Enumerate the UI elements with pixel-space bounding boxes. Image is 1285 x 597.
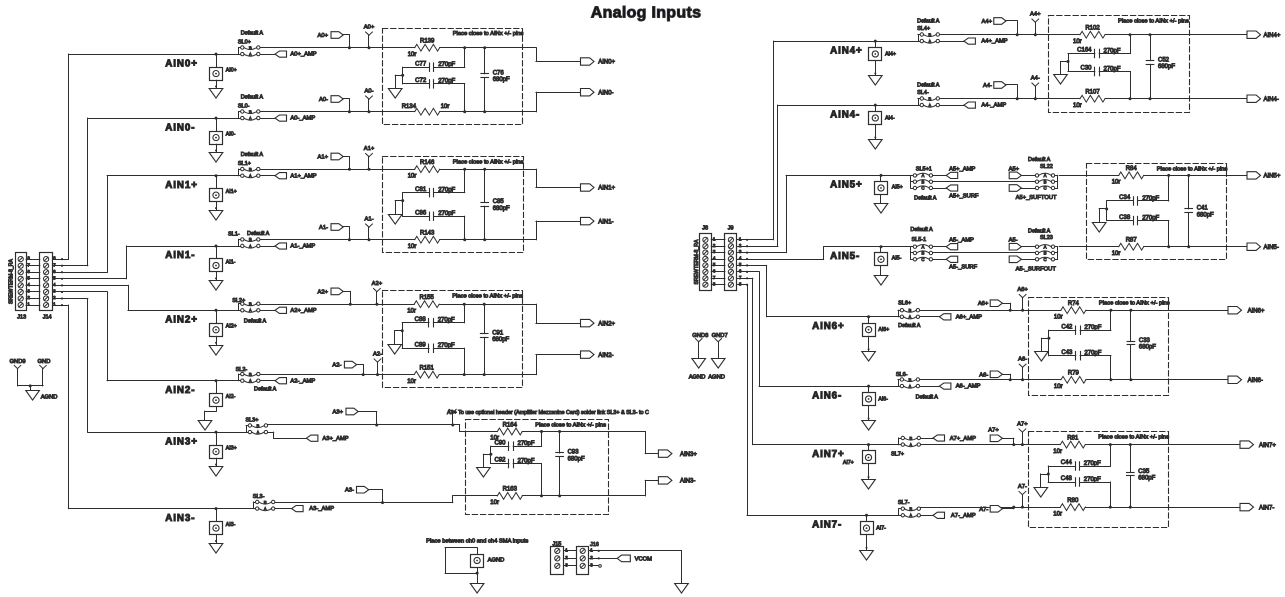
label AIN0- (165, 122, 195, 133)
svg-text:270pF: 270pF (438, 318, 455, 324)
capacitor C85 680pF (481, 168, 510, 242)
svg-text:270pF: 270pF (438, 211, 455, 217)
svg-text:270pF: 270pF (1104, 48, 1121, 54)
svg-text:J8: J8 (702, 226, 708, 232)
ground below AI1- (209, 272, 223, 290)
labels for solder link SL5-1 (910, 227, 933, 243)
svg-text:C88: C88 (415, 317, 427, 323)
wire AIN6- (759, 386, 898, 388)
svg-text:A: A (249, 308, 252, 313)
testpoint AI4- (869, 104, 895, 125)
ground AGND (GND9/GND) (18, 384, 58, 400)
svg-text:AI4+: AI4+ (885, 51, 896, 57)
svg-text:R139: R139 (420, 39, 435, 45)
wire AIN1+ through filter (383, 169, 524, 171)
wire AIN2+ through filter (382, 304, 522, 306)
svg-text:J9: J9 (728, 226, 734, 232)
resistor R151 10r (407, 365, 439, 384)
wire AIN5- through filter (1087, 246, 1227, 248)
svg-text:A1-: A1- (364, 217, 373, 223)
solder link SL7- (899, 507, 921, 519)
svg-text:B: B (908, 308, 911, 313)
resistor R107 10r (1073, 90, 1105, 109)
output flag AIN0- (523, 89, 614, 112)
net flag A5+_SURF (933, 185, 979, 200)
capacitor C93 680pF (556, 430, 585, 497)
wire J9 pin 8 to AIN7- (746, 285, 748, 516)
net flag A1+_AMP (260, 173, 317, 180)
svg-text:A2+: A2+ (318, 289, 329, 295)
svg-text:AI0+: AI0+ (226, 67, 237, 73)
svg-text:AI3+: AI3+ (226, 445, 237, 451)
svg-text:R79: R79 (1068, 371, 1080, 377)
output flag AIN5- (1227, 243, 1279, 251)
testpoint GND (40, 365, 47, 386)
wire AIN3+ to filter (268, 424, 460, 426)
wire A5+_SURF link row B (933, 181, 1036, 183)
capacitor C43 270pF (1049, 350, 1113, 381)
wire A5-_SURF link row B (933, 252, 1036, 254)
svg-text:A0+_AMP: A0+_AMP (290, 52, 316, 58)
capacitor C41 680pF (1185, 174, 1214, 248)
resistor R146 10r (408, 160, 440, 179)
svg-text:AIN5-: AIN5- (830, 251, 860, 262)
labels for solder link SL22 (1028, 157, 1053, 170)
testpoint AI5+ (875, 174, 903, 195)
wire AIN4- to filter (940, 98, 1049, 100)
net flag A4+_AMP (940, 38, 1008, 45)
note 'Place close to AINx +/- pins' (AIN4) (1118, 19, 1189, 25)
output flag AIN7- (1169, 503, 1274, 511)
svg-text:B: B (264, 500, 267, 505)
ground below AI3- (209, 535, 223, 553)
testpoint A4+ (1030, 12, 1041, 37)
svg-text:B: B (921, 251, 924, 256)
wire AIN4+ to filter (940, 34, 1049, 36)
label AIN1+ (165, 180, 198, 191)
svg-text:AGND: AGND (488, 558, 505, 564)
capacitor C30 270pF (1068, 66, 1132, 101)
solder link SL7+ (899, 436, 921, 448)
svg-text:AIN1-: AIN1- (598, 219, 613, 225)
svg-text:SL7-: SL7- (898, 500, 910, 506)
wire J14 pin 1 to AIN3- (62, 305, 69, 509)
svg-text:R87: R87 (1126, 238, 1138, 244)
net flag A1+ (318, 153, 351, 171)
output flag AIN3+ (608, 432, 697, 458)
svg-text:R163: R163 (503, 487, 518, 493)
svg-text:10r: 10r (1073, 39, 1082, 45)
svg-text:270pF: 270pF (438, 62, 455, 68)
label AIN7- (812, 520, 842, 531)
ground of AIN6 filter caps (1035, 330, 1051, 361)
svg-text:680pF: 680pF (568, 457, 585, 463)
svg-text:C41: C41 (1197, 206, 1209, 212)
solder link SL0+ (239, 45, 260, 57)
svg-text:270pF: 270pF (1104, 66, 1121, 72)
testpoint A1- (364, 217, 373, 242)
svg-text:R81: R81 (1067, 435, 1079, 441)
output flag AIN3- (608, 477, 695, 496)
labels for solder link SL3- (253, 494, 265, 500)
svg-text:A7+: A7+ (1017, 421, 1028, 427)
svg-text:AIN5+: AIN5+ (1264, 174, 1281, 180)
output flag AIN6- (1169, 376, 1263, 384)
svg-text:GND: GND (38, 359, 51, 365)
svg-text:SL4+: SL4+ (917, 26, 930, 32)
svg-text:C: C (921, 257, 924, 262)
capacitor C34 270pF (1107, 174, 1171, 205)
net flag A0-_AMP (260, 115, 315, 122)
svg-text:R143: R143 (420, 231, 435, 237)
net flag A4+ (982, 18, 1019, 37)
svg-text:A0+: A0+ (364, 25, 375, 31)
svg-text:C42: C42 (1061, 324, 1073, 330)
capacitor C33 680pF (1127, 309, 1156, 382)
ground of AIN1 filter caps (388, 193, 404, 225)
svg-text:AIN2+: AIN2+ (165, 315, 198, 326)
svg-text:680pF: 680pF (1139, 345, 1156, 351)
solder link SL2+ (239, 302, 260, 314)
net flag A2-_AMP (260, 378, 315, 385)
note 'Place between ch0 and ch4 SMA inputs' (426, 539, 528, 545)
svg-text:A0-: A0- (319, 97, 328, 103)
wire J9 pin 6 to AIN6- (747, 272, 759, 387)
stub J16 pin 3 (589, 565, 601, 568)
svg-text:AI7+: AI7+ (843, 460, 854, 466)
svg-text:J14: J14 (43, 314, 52, 320)
svg-text:B: B (909, 436, 912, 441)
svg-text:AI6+: AI6+ (878, 327, 889, 333)
connector J9 (SREWTERM-8_RA) (725, 234, 742, 291)
svg-text:A7-: A7- (1018, 484, 1027, 490)
output flag AIN4+ (1189, 31, 1281, 39)
svg-text:A: A (908, 384, 911, 389)
svg-text:AIN3+: AIN3+ (165, 436, 198, 447)
svg-text:A: A (256, 430, 259, 435)
testpoint GND8 with AGND ground (689, 339, 706, 381)
testpoint AI7+ (843, 443, 876, 466)
svg-text:A0-: A0- (364, 89, 373, 95)
svg-text:AI1-: AI1- (226, 259, 236, 265)
solder link SL3- (253, 500, 275, 512)
svg-text:270pF: 270pF (1084, 325, 1101, 331)
output flag AIN1- (524, 217, 614, 239)
ground below AI5- (874, 266, 888, 285)
svg-text:Place close to AINx +/- pins: Place close to AINx +/- pins (453, 159, 524, 165)
svg-text:C93: C93 (568, 450, 580, 456)
svg-text:Place close to AINx +/- pins: Place close to AINx +/- pins (452, 294, 523, 300)
svg-text:A: A (928, 39, 931, 44)
capacitor C72 270pF (403, 78, 467, 113)
svg-text:AI5+: AI5+ (892, 184, 903, 190)
svg-text:SL6+: SL6+ (898, 301, 911, 307)
net flag A1- (319, 224, 351, 242)
svg-text:Default A: Default A (910, 227, 933, 233)
svg-text:AGND: AGND (689, 375, 706, 381)
solder link SL4+ (918, 32, 940, 44)
wire AIN1- through filter (383, 239, 524, 241)
svg-text:C81: C81 (415, 187, 427, 193)
svg-text:Analog Inputs: Analog Inputs (591, 5, 702, 22)
svg-text:A: A (909, 513, 912, 518)
svg-text:J15: J15 (553, 542, 562, 548)
svg-text:GND7: GND7 (712, 333, 728, 339)
label J8 (702, 226, 708, 232)
labels for solder link SL6- (896, 372, 938, 400)
svg-text:270pF: 270pF (438, 187, 455, 193)
net flag A4-_AMP (940, 102, 1007, 109)
capacitor C38 270pF (1107, 215, 1171, 248)
solder link SL23 (1035, 244, 1057, 262)
svg-text:AIN4-: AIN4- (830, 109, 860, 120)
svg-text:A7-: A7- (979, 507, 988, 513)
label AIN6- (812, 390, 842, 401)
capacitor C91 680pF (480, 303, 509, 376)
svg-text:A1-: A1- (319, 225, 328, 231)
output flag AIN2+ (522, 304, 615, 327)
svg-text:A: A (249, 116, 252, 121)
svg-text:B: B (1044, 251, 1047, 256)
wire AIN6- to filter (920, 379, 1029, 381)
solder link SL1- (239, 237, 260, 249)
svg-text:C86: C86 (415, 210, 427, 216)
svg-text:VCOM: VCOM (635, 557, 653, 563)
wire AIN4- through filter (1048, 98, 1189, 100)
testpoint A7- (1018, 484, 1027, 509)
svg-text:10r: 10r (407, 379, 416, 385)
svg-text:SL23: SL23 (1040, 235, 1053, 241)
wire J14 pin 4 to AIN2+ (62, 285, 129, 310)
svg-text:Default A: Default A (244, 319, 267, 325)
svg-text:R80: R80 (1067, 498, 1079, 504)
note 'Place close to AINx +/- pins' (AIN1) (453, 159, 524, 165)
svg-text:AIN0+: AIN0+ (165, 58, 198, 69)
svg-text:680pF: 680pF (1158, 64, 1175, 70)
svg-text:B: B (249, 167, 252, 172)
wire AIN1+ (107, 175, 238, 177)
net flag A5- (1009, 238, 1036, 250)
svg-text:AIN1+: AIN1+ (165, 180, 198, 191)
svg-text:A5-_SURFOUT: A5-_SURFOUT (1016, 266, 1057, 272)
net flag A7+_AMP (921, 435, 977, 442)
testpoint A7+ (1017, 421, 1028, 446)
wire AIN3+ through filter (465, 431, 608, 433)
resistor R143 10r (408, 231, 440, 250)
net flag A3- (345, 486, 384, 504)
svg-text:GND8: GND8 (692, 333, 708, 339)
svg-text:A3-_AMP: A3-_AMP (309, 506, 334, 512)
testpoint AI0- (210, 117, 236, 145)
capacitor C88 270pF (402, 303, 466, 327)
wire AIN3+ (88, 432, 246, 434)
svg-text:A4-_AMP: A4-_AMP (981, 103, 1006, 109)
wire AIN1- (126, 246, 238, 248)
ground below AI2- (198, 407, 216, 430)
svg-text:A5-_AMP: A5-_AMP (949, 238, 974, 244)
resistor R155 10r (407, 295, 439, 314)
svg-text:C: C (1043, 186, 1046, 191)
testpoint AI1- (210, 245, 236, 272)
wire AIN6+ (767, 316, 899, 318)
svg-text:A5+: A5+ (1009, 166, 1020, 172)
svg-text:B: B (249, 109, 252, 114)
wire AIN0+ (68, 54, 238, 56)
capacitor C52 680pF (1146, 33, 1175, 100)
svg-text:A: A (921, 244, 924, 249)
testpoint AI5- (875, 245, 902, 265)
svg-text:A6+: A6+ (978, 301, 989, 307)
svg-text:R151: R151 (420, 365, 435, 371)
svg-text:Place close to AINx +/- pins: Place close to AINx +/- pins (1118, 19, 1189, 25)
wire AIN7+ (753, 444, 899, 446)
svg-text:Place close to AINx +/- pins: Place close to AINx +/- pins (1098, 435, 1169, 441)
wire AIN5+ to filter (1059, 175, 1086, 177)
labels GND8 and GND7 (692, 333, 728, 339)
testpoint AI3+ (210, 431, 237, 459)
label J16 (590, 542, 599, 548)
label AIN5- (830, 251, 860, 262)
svg-text:10r: 10r (408, 173, 417, 179)
output flag AIN5+ (1227, 172, 1281, 180)
svg-text:AIN5+: AIN5+ (830, 180, 863, 191)
svg-text:AIN6-: AIN6- (812, 390, 842, 401)
wires J13 pins to J14 pins (26, 260, 40, 306)
ground below AI4- (869, 125, 883, 150)
wire AIN5- (824, 246, 911, 248)
svg-text:Default A: Default A (241, 152, 264, 158)
svg-text:AIN1-: AIN1- (165, 250, 195, 261)
svg-text:Default A: Default A (916, 395, 939, 401)
svg-text:B: B (249, 302, 252, 307)
labels for solder link SL2+ (232, 298, 266, 325)
svg-text:A: A (908, 315, 911, 320)
svg-text:AI1+: AI1+ (226, 189, 237, 195)
svg-text:SREWTERM-8_RA: SREWTERM-8_RA (8, 258, 14, 304)
wire AIN0+ through filter (383, 47, 523, 49)
svg-text:10r: 10r (407, 308, 416, 314)
ground below AI7+ (862, 464, 876, 489)
wire AIN4+ through filter (1048, 34, 1189, 36)
svg-text:C35: C35 (1138, 469, 1150, 475)
svg-text:10r: 10r (408, 244, 417, 250)
svg-text:AI3-: AI3- (226, 522, 236, 528)
net flag A5-_AMP (933, 238, 974, 250)
svg-text:10r: 10r (1054, 384, 1063, 390)
wire J9 pin 5 to AIN6+ (747, 265, 767, 316)
ground of AIN0 filter caps (388, 67, 404, 98)
svg-text:A1+_AMP: A1+_AMP (290, 173, 316, 179)
svg-text:C43: C43 (1061, 350, 1073, 356)
dashed keepout box for AIN7 RC filters (1029, 432, 1169, 528)
wire AIN4- (778, 105, 918, 107)
wire J14 pin 7 to AIN0- (62, 118, 88, 266)
svg-text:Place close to AINx +/- pins: Place close to AINx +/- pins (453, 31, 524, 37)
wire AIN2- to filter (260, 374, 382, 376)
svg-text:Default A: Default A (1028, 157, 1051, 163)
wire AIN0+ to filter (260, 47, 383, 49)
svg-text:C: C (1043, 257, 1046, 262)
ground below AI0- (209, 144, 223, 162)
wire AIN0- (88, 118, 239, 120)
svg-text:270pF: 270pF (518, 441, 535, 447)
svg-text:Place close to AINx +/- pins: Place close to AINx +/- pins (1099, 301, 1170, 307)
svg-text:AIN5-: AIN5- (1264, 245, 1279, 251)
svg-text:A1+: A1+ (318, 155, 329, 161)
svg-text:R164: R164 (503, 422, 518, 428)
svg-text:A2-: A2- (332, 363, 341, 369)
labels for solder link SL2- (236, 367, 277, 392)
svg-text:SL1-: SL1- (228, 232, 240, 238)
wire J9 pin 2 to AIN4- (747, 105, 778, 246)
svg-text:680pF: 680pF (492, 337, 509, 343)
svg-text:10r: 10r (1053, 511, 1062, 517)
svg-text:A6-: A6- (979, 372, 988, 378)
svg-text:AIN7-: AIN7- (1259, 505, 1274, 511)
svg-text:AIN1+: AIN1+ (598, 186, 615, 192)
capacitor C92 270pF (491, 458, 543, 498)
svg-text:A2-_AMP: A2-_AMP (290, 378, 315, 384)
resistor R81 10r (1053, 435, 1085, 454)
label J13 (17, 314, 26, 320)
svg-text:Default A: Default A (914, 195, 937, 201)
svg-text:AI5-: AI5- (892, 256, 902, 262)
svg-text:B: B (928, 32, 931, 37)
svg-text:C89: C89 (415, 343, 427, 349)
resistor R134 10r (402, 104, 450, 115)
ground below AGND testpoint (470, 584, 484, 594)
svg-text:AIN4+: AIN4+ (830, 45, 863, 56)
svg-text:AIN2+: AIN2+ (598, 321, 615, 327)
svg-text:Default A: Default A (898, 323, 921, 329)
svg-text:C52: C52 (1158, 57, 1170, 63)
svg-text:R155: R155 (420, 295, 435, 301)
svg-text:R134: R134 (402, 104, 417, 110)
svg-text:AIN6+: AIN6+ (1248, 308, 1265, 314)
svg-text:J16: J16 (590, 542, 599, 548)
solder link SL4- (918, 96, 940, 108)
svg-text:AIN0-: AIN0- (598, 90, 613, 96)
svg-text:A5+_AMP: A5+_AMP (949, 166, 975, 172)
svg-text:270pF: 270pF (518, 458, 535, 464)
connector J16 (577, 547, 594, 575)
svg-text:AI0-: AI0- (226, 131, 236, 137)
label J9 (728, 226, 734, 232)
testpoint AI0+ (210, 53, 237, 81)
testpoint A2- (373, 351, 382, 376)
note 'Place close to AINx +/- pins' (AIN0) (453, 31, 524, 37)
svg-text:C: C (921, 186, 924, 191)
testpoint AI4+ (869, 40, 896, 61)
svg-text:B: B (256, 423, 259, 428)
wires J15 pins to J16 pins (564, 551, 577, 566)
net flag A7-_AMP (921, 512, 976, 519)
svg-text:C76: C76 (493, 70, 505, 76)
svg-text:270pF: 270pF (438, 79, 455, 85)
connector J13 (SREWTERM-8_RA) (8, 253, 30, 311)
wire AIN1- to filter (260, 239, 383, 241)
ground below AI0+ (209, 80, 223, 98)
svg-text:B: B (249, 45, 252, 50)
svg-text:AIN2-: AIN2- (165, 385, 195, 396)
svg-text:Place between ch0 and ch4 SMA: Place between ch0 and ch4 SMA inputs (426, 539, 528, 545)
svg-text:GND9: GND9 (10, 359, 26, 365)
svg-text:270pF: 270pF (1142, 196, 1159, 202)
dashed keepout box for AIN3 RC filters (466, 420, 609, 515)
svg-text:680pF: 680pF (493, 77, 510, 83)
svg-text:A5-_SURF: A5-_SURF (949, 265, 977, 271)
svg-text:A: A (249, 52, 252, 57)
